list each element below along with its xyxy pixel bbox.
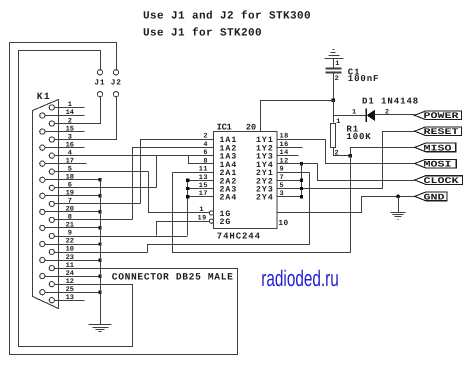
wire from K1 pin 23 to ground bus — [45, 260, 101, 262]
svg-text:K1: K1 — [37, 91, 51, 102]
svg-text:J2: J2 — [111, 79, 122, 88]
wire: J1 bottom to DB25 pin 2 — [55, 97, 101, 124]
wire: IC 1Y3 (14) stub — [278, 155, 299, 157]
wire: IC pin 10 ground row — [278, 197, 415, 213]
connector K1 pin 12 circle — [49, 282, 54, 287]
svg-text:2: 2 — [385, 108, 389, 116]
connector K1 pin 7 circle — [49, 201, 54, 206]
wire from K1 pin 21 to ground bus — [45, 227, 101, 229]
svg-text:2: 2 — [203, 133, 208, 141]
svg-text:1: 1 — [335, 60, 339, 68]
port flag MISO — [415, 143, 456, 152]
svg-text:J1: J1 — [94, 79, 105, 88]
junction 2Y2 bus — [300, 179, 303, 182]
port flag CLOCK — [415, 176, 463, 185]
connector K1 pin 22 circle — [40, 241, 45, 246]
connector K1 pin 18 circle — [40, 177, 45, 182]
svg-text:2: 2 — [68, 117, 72, 125]
connector K1 pin 24 circle — [40, 274, 45, 279]
wire: DB25 pin 9 row — [55, 236, 188, 238]
wire: DB25 pin 7 to IC pin 2 (1A1) — [141, 140, 214, 204]
svg-text:24: 24 — [66, 270, 74, 278]
connector K1 pin 13 circle — [49, 298, 54, 303]
connector K1 DB25 outline — [33, 100, 59, 309]
jumper J2 bottom pin — [113, 92, 118, 97]
wire from K1 pin 24 to ground bus — [45, 276, 101, 278]
connector K1 pin 20 circle — [40, 209, 45, 214]
connector K1 pin 14 circle — [40, 113, 45, 118]
svg-text:74HC244: 74HC244 — [217, 231, 261, 241]
wire from K1 pin 10 — [55, 252, 148, 254]
svg-text:18: 18 — [66, 174, 74, 182]
svg-text:17: 17 — [66, 157, 74, 165]
wire: IC pin 11 (2A1) row — [173, 172, 214, 174]
ground symbol under connector — [89, 324, 112, 326]
wire: VCC junction down to D1/R1 — [333, 101, 335, 123]
IC U1: 74HC244 buffer box — [214, 132, 278, 229]
svg-text:POWER: POWER — [424, 111, 460, 121]
port flag RESET — [415, 127, 462, 136]
jumper J1 bottom pin — [97, 92, 102, 97]
svg-text:15: 15 — [66, 125, 74, 133]
wire from K1 pin 16 — [45, 147, 85, 149]
wire from K1 pin 1 — [55, 107, 85, 109]
svg-text:20: 20 — [246, 122, 256, 132]
connector K1 pin 6 circle — [49, 185, 54, 190]
svg-text:Use J1 and J2 for STK300: Use J1 and J2 for STK300 — [143, 10, 311, 23]
wire from K1 pin 15 — [45, 131, 85, 133]
svg-text:CLOCK: CLOCK — [424, 176, 460, 186]
svg-text:13: 13 — [199, 174, 208, 182]
wire: tie DB25 pin 6 row up to pin4/1A3 net — [156, 156, 158, 188]
junction at ground bus pin 24 — [98, 274, 101, 277]
svg-text:100K: 100K — [346, 132, 371, 142]
svg-text:4: 4 — [68, 149, 72, 157]
junction 1Y4 bus — [300, 162, 303, 165]
IC 1G enable bubble — [209, 211, 213, 215]
svg-text:D1 1N4148: D1 1N4148 — [362, 96, 419, 106]
wire: DB25 pin 10 jog — [148, 173, 310, 253]
wire: net DB25.12 to J1 top (inner loop) — [19, 51, 133, 347]
wire: D1 to POWER flag — [375, 114, 415, 116]
junction at ground bus pin 20 — [98, 210, 101, 213]
svg-text:12: 12 — [66, 278, 74, 286]
junction at ground bus pin 21 — [98, 226, 101, 229]
connector K1 pin 15 circle — [40, 129, 45, 134]
svg-text:20: 20 — [66, 206, 74, 214]
wire from K1 pin 13 — [55, 300, 85, 302]
junction at ground bus pin 18 — [98, 178, 101, 181]
connector K1 pin 9 circle — [49, 233, 54, 238]
capacitor C1 plates — [326, 68, 342, 70]
wire from K1 pin 18 to ground bus — [45, 179, 101, 181]
wire from K1 pin 9 — [55, 236, 188, 238]
svg-text:2A4: 2A4 — [220, 194, 238, 203]
wire: R1 bottom to MISO junction — [334, 148, 351, 156]
svg-text:radioded.ru: radioded.ru — [261, 266, 339, 291]
svg-text:13: 13 — [66, 294, 74, 302]
wire: connector ground bus — [100, 180, 102, 325]
svg-text:2Y4: 2Y4 — [256, 194, 274, 203]
svg-text:Use J1 for STK200: Use J1 for STK200 — [143, 27, 262, 40]
connector K1 pin 10 circle — [49, 249, 54, 254]
svg-text:10: 10 — [278, 219, 288, 228]
svg-text:1: 1 — [199, 206, 203, 214]
svg-text:11: 11 — [66, 262, 74, 270]
junction 2Y4 bus — [300, 195, 303, 198]
wire: IC 1Y4 (12) to CLOCK — [278, 164, 415, 181]
connector K1 pin 3 circle — [49, 137, 54, 142]
wire: DB25 pin 5 to IC 1G — [149, 172, 210, 213]
wire from K1 pin 17 — [45, 163, 87, 165]
wire: IC 2G to DB25 pin 9 row — [157, 222, 210, 236]
junction at ground bus pin 19 — [98, 194, 101, 197]
connector K1 pin 23 circle — [40, 258, 45, 263]
svg-text:6: 6 — [68, 182, 72, 190]
svg-text:11: 11 — [199, 166, 208, 174]
wire from K1 pin 19 to ground bus — [45, 195, 101, 197]
junction R1/MISO node — [348, 154, 351, 157]
wire from K1 pin 25 to ground bus — [45, 292, 101, 294]
port flag POWER — [415, 111, 462, 120]
wire from K1 pin 4 — [55, 155, 214, 157]
wire: J2 bottom to DB25 pin 3 — [55, 97, 117, 140]
wire: IC pin 13 (2A2) row — [188, 180, 214, 182]
junction at ground bus pin 22 — [98, 242, 101, 245]
wire: net DB25.11 to J2 top (outer loop) — [10, 43, 238, 355]
junction 2A4 bus — [186, 195, 189, 198]
svg-text:1: 1 — [336, 118, 340, 126]
wire from K1 pin 14 — [45, 115, 85, 117]
connector K1 pin 21 circle — [40, 225, 45, 230]
wire from K1 pin 20 to ground bus — [45, 211, 101, 213]
connector K1 pin 2 circle — [49, 121, 54, 126]
svg-text:10: 10 — [66, 246, 74, 254]
svg-text:5: 5 — [68, 165, 72, 173]
wire: bus 2A2/2A3/2A4 to DB25 pin 9 — [187, 181, 189, 236]
svg-text:19: 19 — [198, 215, 207, 223]
wire: MISO junction down to 2A1 net — [350, 156, 352, 253]
wire: DB25 pin 8 to IC pin 4 (1A2) — [133, 148, 214, 220]
svg-text:CONNECTOR DB25 MALE: CONNECTOR DB25 MALE — [112, 271, 234, 282]
connector K1 pin 4 circle — [49, 153, 54, 158]
wire: IC 2Y4 (3) row — [278, 196, 302, 198]
svg-text:2G: 2G — [220, 218, 232, 227]
power symbol above C1 — [325, 58, 344, 60]
wire: IC 1Y1 (18) to MOSI — [278, 140, 415, 164]
wire: D1 anode row — [334, 115, 367, 117]
wire from K1 pin 8 — [55, 219, 133, 221]
svg-text:17: 17 — [199, 190, 208, 198]
wire: output pair bus — [301, 164, 303, 197]
port flag MOSI — [415, 159, 457, 168]
junction 2Y3 bus — [300, 187, 303, 190]
svg-text:21: 21 — [66, 222, 74, 230]
resistor R1 body — [331, 124, 336, 148]
wire: IC 1Y2 (16) stub — [278, 147, 303, 149]
connector K1 pin 5 circle — [49, 169, 54, 174]
svg-text:2: 2 — [335, 75, 339, 83]
svg-text:3: 3 — [68, 133, 72, 141]
svg-text:4: 4 — [203, 141, 208, 149]
svg-text:IC1: IC1 — [217, 123, 232, 133]
jumper J2 top pin — [113, 70, 118, 75]
svg-text:12: 12 — [280, 157, 289, 165]
svg-text:MOSI: MOSI — [424, 160, 452, 170]
wire: 1A4 tie to 1A3 net — [189, 156, 214, 164]
svg-text:2: 2 — [335, 149, 339, 157]
svg-text:1: 1 — [68, 101, 72, 109]
connector K1 pin 11 circle — [49, 266, 54, 271]
wire: 2A1 to MISO net (under IC) — [173, 173, 351, 253]
connector K1 pin 17 circle — [40, 161, 45, 166]
svg-text:22: 22 — [66, 238, 74, 246]
junction 2A2 bus — [186, 179, 189, 182]
wire: power symbol to C1 — [333, 59, 335, 68]
svg-text:7: 7 — [68, 198, 72, 206]
svg-text:9: 9 — [280, 166, 285, 174]
svg-text:GND: GND — [424, 192, 445, 202]
diode D1 — [365, 109, 367, 123]
wire: IC pin 9 (2Y1) row — [278, 172, 310, 174]
wire: IC 2Y3 (5) to RESET — [278, 132, 415, 189]
wire from K1 pin 7 — [55, 203, 141, 205]
svg-text:23: 23 — [66, 254, 74, 262]
svg-text:8: 8 — [203, 157, 208, 165]
connector K1 pin 1 circle — [49, 105, 54, 110]
port flag GND — [415, 192, 447, 201]
svg-text:MISO: MISO — [424, 143, 452, 153]
svg-text:19: 19 — [66, 190, 74, 198]
junction VCC node — [331, 98, 334, 101]
svg-text:100nF: 100nF — [348, 74, 380, 84]
ground symbol at GND flag — [398, 197, 400, 213]
wire: IC pin 17 (2A4) row — [188, 196, 214, 198]
jumper J1 top pin — [97, 70, 102, 75]
wire: VCC to IC pin 20 — [261, 101, 334, 132]
wire from K1 pin 22 to ground bus — [45, 244, 101, 246]
junction GND node — [396, 195, 400, 199]
wire from K1 pin 6 — [55, 187, 157, 189]
connector K1 pin 25 circle — [40, 290, 45, 295]
svg-text:14: 14 — [66, 109, 74, 117]
wire: IC pin 15 (2A3) row — [188, 188, 214, 190]
connector K1 pin 16 circle — [40, 145, 45, 150]
wire: IC 2Y2 (7) row — [278, 180, 302, 182]
svg-text:25: 25 — [66, 286, 74, 294]
wire: MISO junction up and to MISO flag — [351, 148, 415, 156]
junction 2A3 bus — [186, 187, 189, 190]
wire: C1 to VCC junction — [333, 74, 335, 100]
connector K1 pin 8 circle — [49, 217, 54, 222]
svg-text:8: 8 — [68, 214, 72, 222]
junction at ground bus pin 23 — [98, 258, 101, 261]
svg-text:6: 6 — [203, 149, 208, 157]
connector K1 pin 19 circle — [40, 193, 45, 198]
IC 2G enable bubble — [209, 219, 213, 223]
junction at ground bus pin 25 — [98, 291, 101, 294]
wire from K1 pin 5 — [55, 171, 149, 173]
svg-text:RESET: RESET — [424, 127, 459, 137]
svg-text:15: 15 — [199, 182, 208, 190]
svg-text:16: 16 — [66, 141, 74, 149]
